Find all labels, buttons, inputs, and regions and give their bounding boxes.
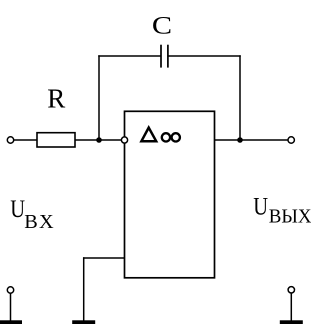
wire input terminal to resistor (14, 139, 38, 141)
input reference terminal (bottom left, open circle) (7, 287, 13, 293)
wire op-amp output to output terminal (215, 139, 289, 141)
wire op-amp noninverting input horizontal (83, 257, 125, 259)
ground (bottom right) (280, 320, 303, 324)
svg-text:UВЫХ: UВЫХ (253, 193, 311, 227)
op-amp U1 (amplifier box) (125, 111, 215, 277)
wire noninverting input down to ground (83, 257, 85, 320)
op-amp inverting input pin (open circle on box edge) (121, 137, 127, 143)
node A (summing junction dot) (96, 137, 102, 143)
wire feedback right vertical (239, 55, 241, 140)
wire bottom-left terminal to ground (10, 293, 12, 320)
svg-text:R: R (47, 83, 65, 113)
output terminal (right, open circle) (288, 137, 294, 143)
ground (middle, below op-amp input) (72, 320, 95, 324)
svg-text:C: C (152, 13, 172, 40)
input terminal (left, open circle) (7, 137, 13, 143)
ground (bottom left) (0, 320, 22, 324)
wire feedback top-left horizontal (98, 55, 161, 57)
wire feedback left vertical (98, 55, 100, 140)
op-amp symbol delta (141, 128, 156, 142)
op-amp symbol infinity (162, 133, 180, 141)
resistor R (37, 133, 75, 147)
output reference terminal (bottom right, open circle) (288, 287, 294, 293)
wire resistor to op-amp input (75, 139, 122, 141)
wire feedback top-right horizontal (168, 55, 241, 57)
node B (output junction dot) (237, 137, 243, 143)
wire bottom-right terminal to ground (290, 293, 292, 321)
svg-text:UВХ: UВХ (10, 196, 54, 233)
capacitor C (161, 45, 168, 68)
